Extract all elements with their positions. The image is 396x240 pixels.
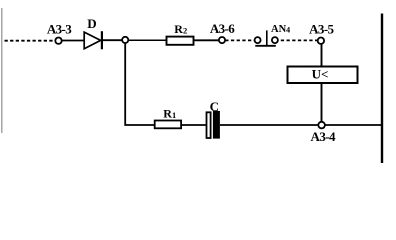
- svg-text:R2: R2: [174, 22, 187, 36]
- svg-text:AN4: AN4: [271, 24, 290, 35]
- capacitor C: [207, 99, 220, 139]
- resistor R1: [155, 106, 181, 128]
- diode D: [84, 16, 102, 49]
- wire A3-4 to right bus: [325, 124, 382, 126]
- svg-text:C: C: [210, 99, 219, 114]
- wire junction to R2: [128, 39, 166, 41]
- wire relay box down to A3-4: [321, 84, 323, 123]
- wire diode to junction: [103, 39, 123, 41]
- contact AN4: [255, 24, 291, 46]
- node A3-3: [47, 22, 72, 44]
- node A3-4: [311, 122, 336, 144]
- wire R2 to A3-6: [194, 39, 219, 41]
- wire R1 to capacitor: [182, 124, 206, 126]
- wire dashed AN4 to A3-5: [281, 39, 318, 41]
- left border line: [1, 8, 3, 133]
- svg-text:U<: U<: [312, 67, 329, 82]
- svg-text:A3-3: A3-3: [47, 22, 72, 37]
- right bus bar: [381, 14, 383, 164]
- resistor R2: [167, 22, 194, 45]
- node A3-5: [309, 22, 334, 44]
- node A3-6: [210, 21, 235, 43]
- wire A3-3 to diode: [62, 40, 84, 42]
- junction node: [122, 37, 128, 43]
- wire dashed lead-in to A3-3: [5, 40, 54, 42]
- wire capacitor to A3-4: [220, 124, 319, 126]
- wire A3-5 down to relay box: [321, 44, 323, 66]
- svg-text:R1: R1: [163, 106, 176, 120]
- relay U< box: [288, 67, 358, 84]
- svg-text:A3-6: A3-6: [210, 21, 235, 36]
- wire dashed A3-6 to AN4: [225, 39, 254, 41]
- svg-text:A3-4: A3-4: [311, 129, 336, 144]
- svg-text:D: D: [87, 16, 96, 31]
- svg-text:A3-5: A3-5: [309, 22, 334, 37]
- wire junction down to lower rail: [125, 43, 154, 125]
